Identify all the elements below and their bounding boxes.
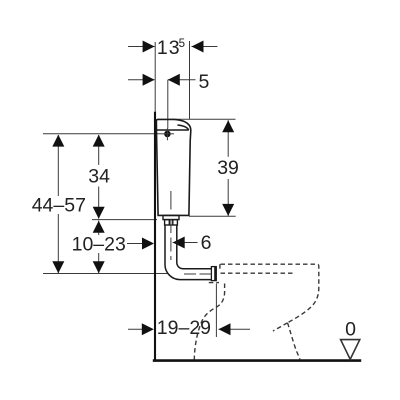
svg-text:44–57: 44–57 <box>32 195 86 217</box>
svg-text:34: 34 <box>88 166 110 188</box>
svg-text:6: 6 <box>201 232 212 254</box>
svg-text:5: 5 <box>199 71 210 93</box>
svg-text:13: 13 <box>157 37 181 59</box>
svg-text:5: 5 <box>179 38 185 50</box>
svg-text:19–29: 19–29 <box>157 317 211 339</box>
svg-text:39: 39 <box>217 157 239 179</box>
svg-text:0: 0 <box>345 318 356 340</box>
svg-text:10–23: 10–23 <box>72 233 126 255</box>
